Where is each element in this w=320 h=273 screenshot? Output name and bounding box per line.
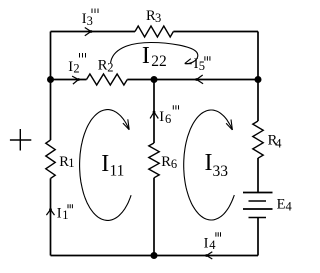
svg-text:R: R <box>161 154 171 170</box>
svg-text:3: 3 <box>155 11 161 25</box>
svg-text:6: 6 <box>171 157 177 171</box>
svg-text:1: 1 <box>68 156 74 170</box>
svg-text:E: E <box>277 196 286 212</box>
svg-text:6: 6 <box>165 112 171 126</box>
svg-text:22: 22 <box>151 53 167 70</box>
svg-text:3: 3 <box>87 14 93 28</box>
svg-text:I: I <box>57 205 62 221</box>
svg-text:1: 1 <box>62 208 68 222</box>
svg-text:2: 2 <box>73 62 79 76</box>
svg-text:I: I <box>205 150 213 176</box>
svg-text:4: 4 <box>209 238 216 252</box>
svg-text:I: I <box>101 151 109 177</box>
svg-text:4: 4 <box>286 199 293 213</box>
svg-text:4: 4 <box>275 137 282 151</box>
svg-text:I: I <box>142 43 150 69</box>
svg-text:11: 11 <box>110 162 125 179</box>
svg-text:5: 5 <box>199 59 205 73</box>
svg-text:I: I <box>159 109 164 125</box>
svg-text:2: 2 <box>107 60 113 74</box>
svg-text:33: 33 <box>213 163 229 180</box>
svg-text:I: I <box>204 235 209 251</box>
